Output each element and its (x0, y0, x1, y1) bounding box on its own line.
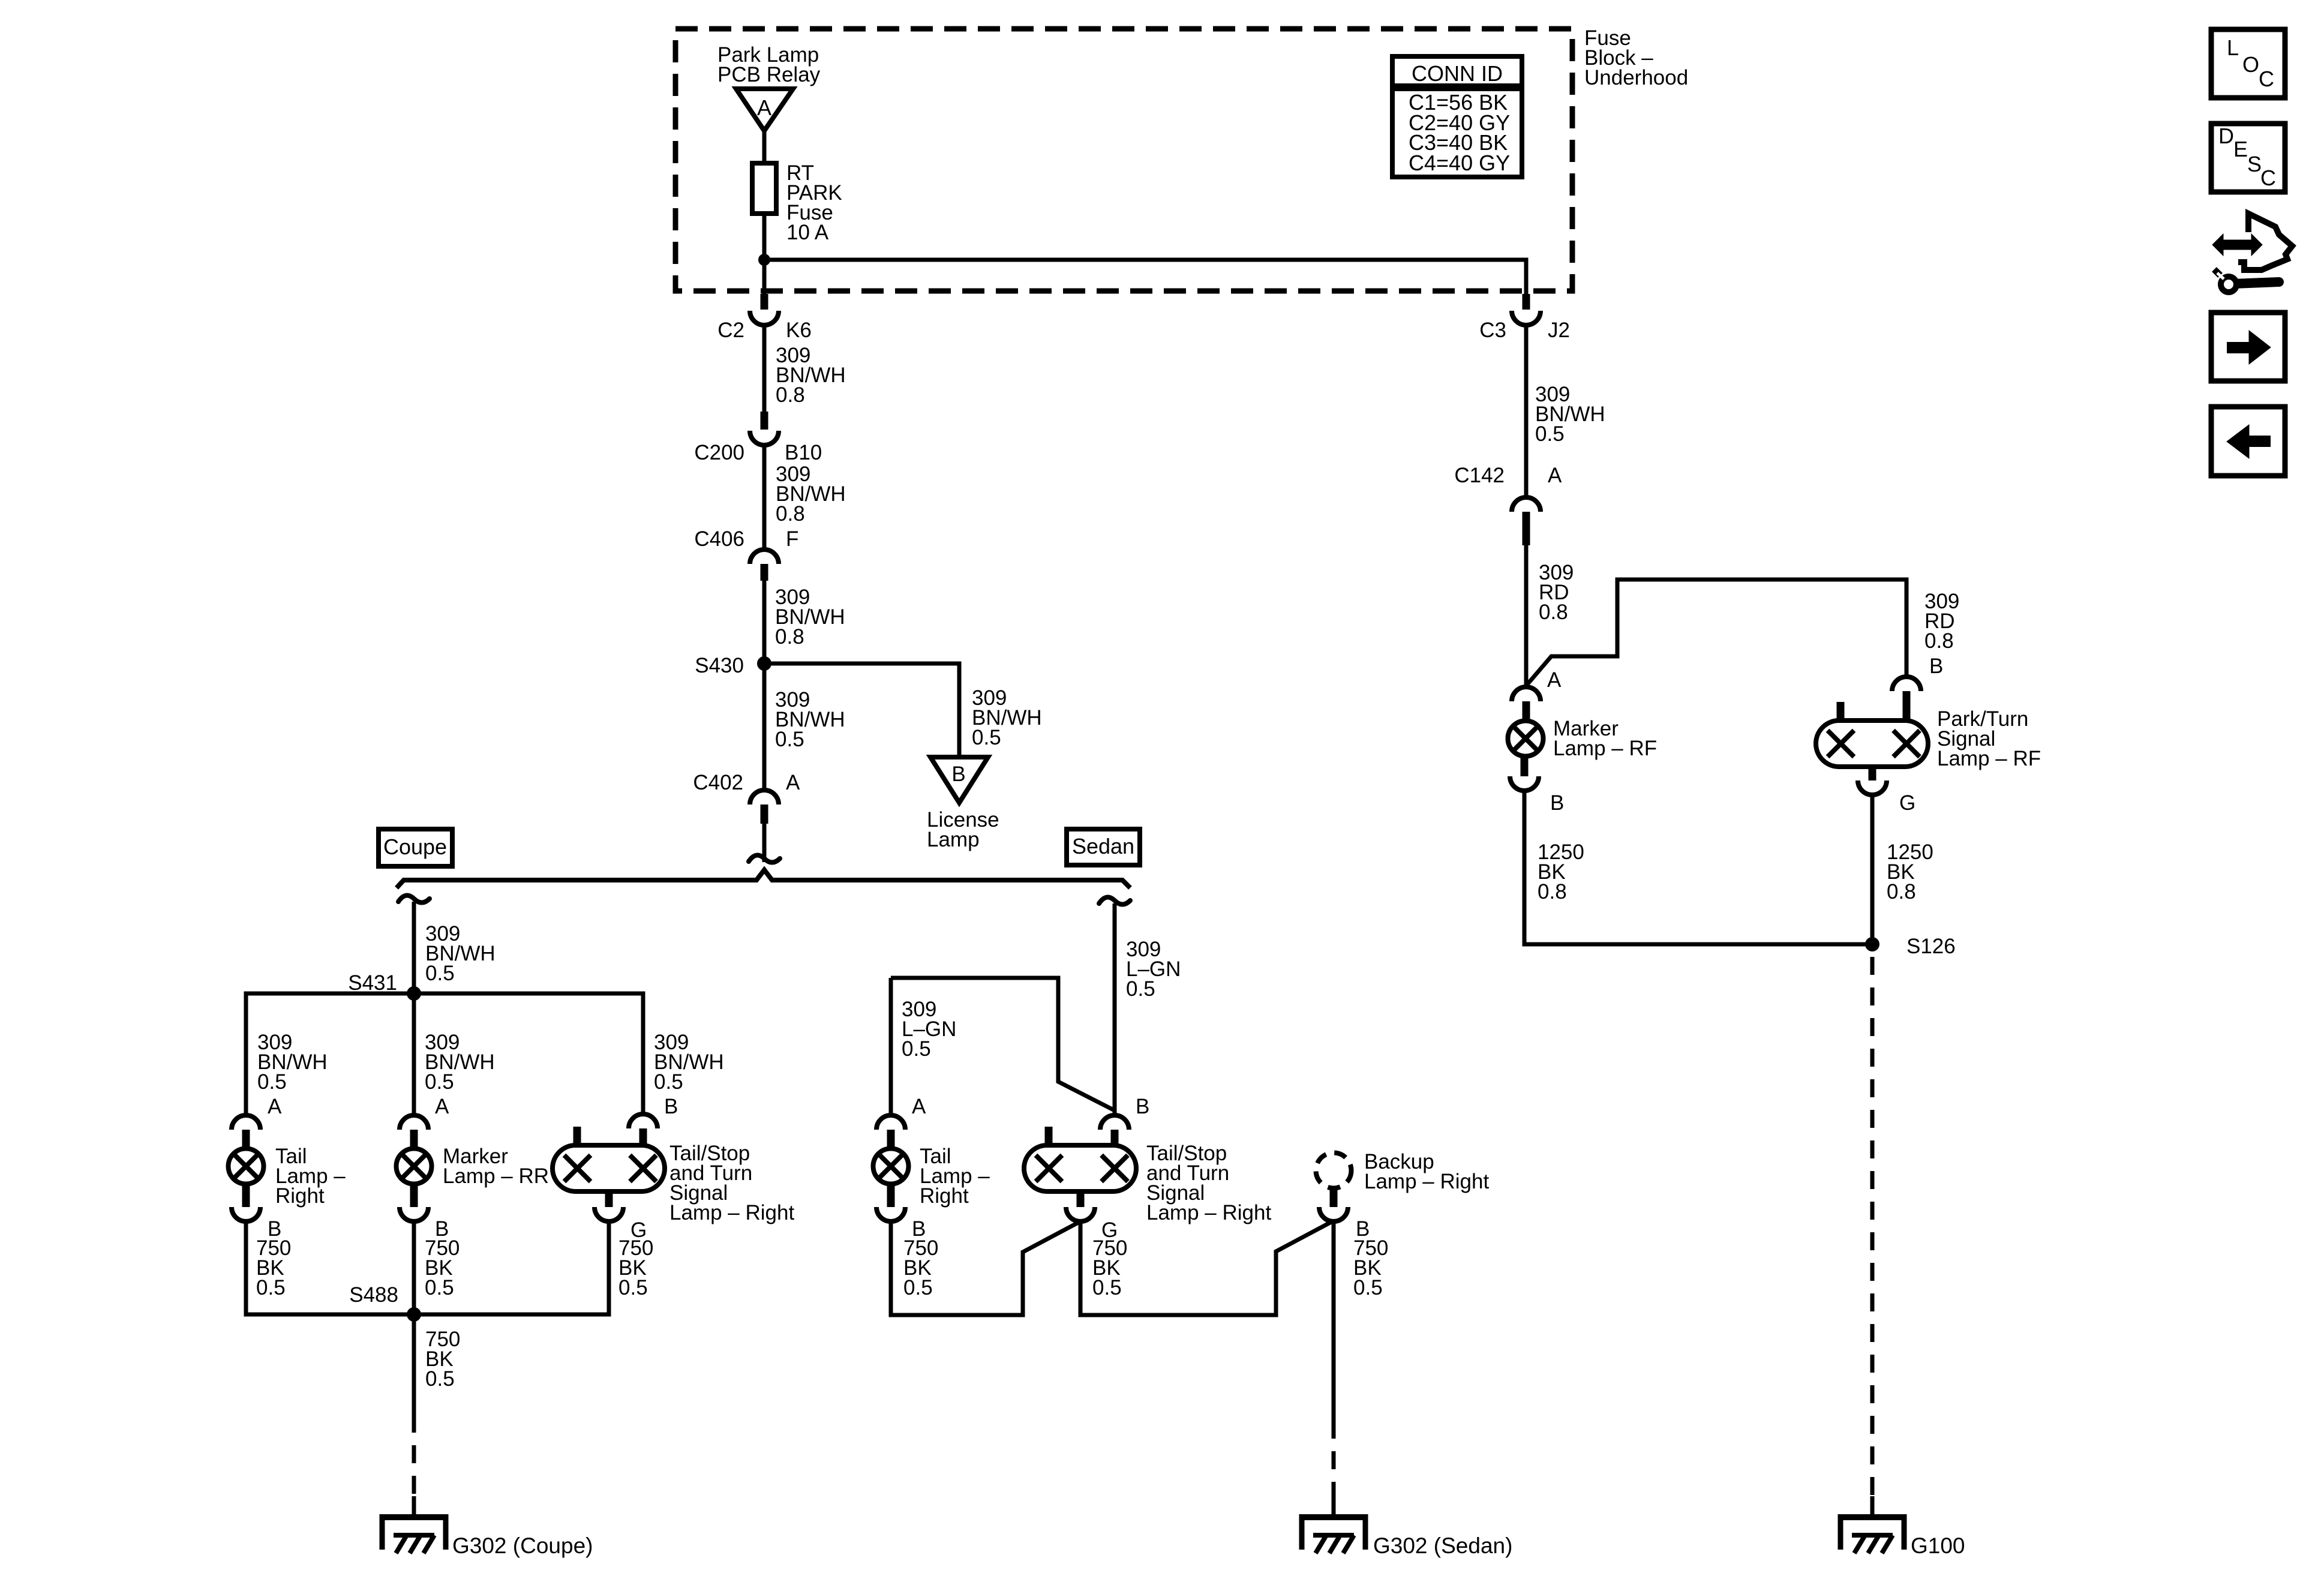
pin stub: coupe marker lamp A (410, 1130, 418, 1149)
ground G100 (1838, 1514, 1906, 1553)
wire: marker RF B to S126, circuit 1250 BK 0.8 (1524, 791, 1872, 944)
wire: jog branch to park/turn lamp RF, circuit 309 RD 0.8 (1526, 580, 1906, 686)
lamp: Marker Lamp - RR (397, 1149, 432, 1184)
label: C2 (717, 319, 744, 342)
label: S431 (348, 971, 397, 995)
relay output pin A triangle (Park Lamp PCB Relay) (736, 89, 793, 131)
label: 1250 BK 0.8 (park/turn RF) (1887, 840, 1933, 903)
pin stub: sedan tail/stop lamp unused (1045, 1127, 1053, 1145)
label: pin G (park/turn lamp RF) (1899, 791, 1915, 815)
lamp: Tail/Stop and Turn Signal Lamp - Right (coupe) (553, 1145, 665, 1191)
wire: S430 branch to license lamp (764, 664, 959, 757)
wire: C406 to S430, circuit 309 BN/WH 0.8 (762, 581, 767, 664)
label: pin G (coupe tail/stop lamp) (630, 1218, 647, 1242)
label: pin B (backup lamp) (1356, 1217, 1370, 1241)
svg-text:S126: S126 (1906, 935, 1956, 958)
svg-text:0.5: 0.5 (775, 728, 804, 751)
wire: sedan tail lamp branch jog (891, 978, 1115, 1110)
splice node S488 (407, 1307, 421, 1322)
svg-text:B: B (1929, 655, 1943, 678)
wire: sedan tail lamp B ground run, circuit 750 BK 0.5 (891, 1221, 1079, 1315)
pin stub: coupe marker lamp B (410, 1183, 418, 1207)
svg-text:A: A (912, 1095, 926, 1118)
label: S488 (349, 1283, 398, 1307)
wire: coupe marker lamp B to S488, circuit 750 BK 0.5 (412, 1221, 416, 1314)
svg-text:0.8: 0.8 (776, 383, 805, 407)
label: 750 BK 0.5 (backup lamp) (1353, 1236, 1388, 1299)
label: pin B (sedan tail/stop lamp) (1136, 1095, 1149, 1118)
label: pin B (coupe marker lamp) (435, 1217, 449, 1241)
label: 750 BK 0.5 (S488-ground) (425, 1328, 460, 1391)
label: pin A (sedan tail lamp) (912, 1095, 926, 1118)
label: Fuse Block - Underhood (1584, 26, 1688, 89)
svg-text:C3: C3 (1479, 319, 1506, 342)
svg-text:C4=40 GY: C4=40 GY (1409, 151, 1510, 175)
splice node S126 (1865, 937, 1879, 951)
splice node S431 (407, 986, 421, 1001)
wire: bus down through C2 (762, 260, 767, 295)
wire: sedan tail/stop G ground run, circuit 750 BK 0.5 (1080, 1221, 1331, 1315)
svg-text:Lamp – Right: Lamp – Right (1146, 1201, 1271, 1224)
svg-text:0.5: 0.5 (425, 1070, 454, 1094)
svg-text:S431: S431 (348, 971, 397, 995)
lamp: Tail/Stop and Turn Signal Lamp - Right (sedan) (1024, 1145, 1136, 1191)
ground G302 (Coupe) (380, 1514, 448, 1553)
connector C200 cup (750, 431, 779, 445)
pin stub: park/turn lamp RF G (1869, 767, 1876, 781)
connector C402 pin A (male stub) (761, 804, 768, 824)
label: 309 BN/WH 0.5 (C3-C142) (1535, 383, 1605, 446)
svg-text:K6: K6 (786, 319, 812, 342)
label box: Sedan (1067, 829, 1140, 865)
wire: ground stub G100 (1870, 1496, 1875, 1517)
connector cap at coupe tail lamp pin A (232, 1115, 260, 1130)
wire: C200 to C406, circuit 309 BN/WH 0.8 (762, 445, 767, 550)
label: Marker Lamp - RF (1553, 717, 1657, 760)
pin stub: coupe tail lamp B (242, 1183, 250, 1207)
svg-text:G302 (Coupe): G302 (Coupe) (452, 1533, 593, 1558)
wire: C3 to C142, circuit 309 BN/WH 0.5 (1524, 325, 1529, 497)
svg-text:0.5: 0.5 (903, 1276, 933, 1299)
svg-text:J2: J2 (1548, 319, 1570, 342)
svg-text:A: A (268, 1095, 282, 1118)
label: 309 RD 0.8 (marker RF) (1539, 561, 1574, 624)
icon: repair/diagnostic (double arrow, harness outline, wrench) (2212, 214, 2292, 292)
wire: coupe feed to S431, circuit 309 BN/WH 0.5 (412, 902, 416, 993)
label: CONN ID rows (1409, 90, 1510, 175)
label: K6 (786, 319, 812, 342)
label: 309 BN/WH 0.5 (coupe tail lamp) (257, 1031, 328, 1094)
svg-text:B: B (1136, 1095, 1149, 1118)
pin stub: sedan tail/stop lamp B (1111, 1130, 1119, 1145)
wire: down to sedan tail lamp pin A (889, 978, 893, 1115)
label: C402 (693, 771, 743, 794)
connector C200 pin B10 (male stub) (761, 412, 768, 430)
svg-text:C200: C200 (694, 441, 744, 464)
svg-text:Lamp – RR: Lamp – RR (443, 1164, 549, 1188)
connector C142 pin A (male stub) (1523, 512, 1530, 545)
splice node S430 (757, 656, 771, 671)
svg-text:0.8: 0.8 (1538, 880, 1567, 903)
connector C406 cap (750, 550, 779, 564)
lamp: Marker Lamp - RF (1508, 721, 1544, 757)
svg-text:S: S (2247, 152, 2262, 176)
svg-text:0.8: 0.8 (1924, 629, 1954, 653)
wire: S430 to C402, circuit 309 BN/WH 0.5 (762, 664, 767, 790)
svg-text:F: F (786, 527, 798, 551)
label: C3 (1479, 319, 1506, 342)
svg-text:A: A (1547, 668, 1562, 692)
ground G302 (Sedan) (1299, 1514, 1368, 1553)
svg-text:0.8: 0.8 (1887, 880, 1916, 903)
svg-text:0.5: 0.5 (1535, 422, 1565, 446)
wire (off-page dashed): S126 to G100 (1870, 957, 1875, 1501)
label: Park/Turn Signal Lamp - RF (1937, 707, 2041, 770)
svg-text:0.5: 0.5 (257, 1070, 287, 1094)
label: 309 RD 0.8 (park/turn RF) (1924, 590, 1959, 653)
svg-text:D: D (2218, 124, 2234, 148)
connector cup at coupe tail/stop lamp pin G (594, 1207, 623, 1221)
svg-text:0.5: 0.5 (1353, 1276, 1383, 1299)
label: License Lamp (927, 808, 999, 851)
body style split brace (397, 870, 1130, 888)
svg-text:C2: C2 (717, 319, 744, 342)
label: 750 BK 0.5 (sedan tail lamp) (903, 1236, 938, 1299)
label box: Coupe (379, 829, 452, 866)
pin stub: coupe tail/stop lamp G (605, 1191, 613, 1207)
svg-text:B10: B10 (785, 441, 822, 464)
label: 309 BN/WH 0.5 (coupe feed) (425, 922, 496, 985)
connector C142 cap (1512, 497, 1541, 512)
svg-text:0.8: 0.8 (776, 502, 805, 526)
svg-text:0.5: 0.5 (425, 962, 455, 985)
svg-text:0.5: 0.5 (902, 1037, 931, 1061)
pin stub: sedan tail/stop lamp G (1077, 1191, 1085, 1207)
pin stub: coupe tail/stop lamp B (639, 1128, 647, 1145)
connector cap at coupe tail/stop lamp pin B (629, 1114, 657, 1128)
svg-text:0.5: 0.5 (425, 1276, 454, 1299)
connector cap at marker lamp RF pin A (1512, 687, 1541, 701)
svg-text:Underhood: Underhood (1584, 66, 1688, 89)
label: pin B (coupe tail/stop lamp) (664, 1095, 678, 1118)
svg-text:A: A (1548, 464, 1562, 487)
wire: sedan feed, circuit 309 L-GN 0.5 (1113, 903, 1117, 1115)
label: 309 BN/WH 0.5 (license branch) (972, 686, 1042, 749)
label: G302 (Sedan) (1373, 1533, 1512, 1558)
svg-text:B: B (1550, 791, 1564, 815)
label: G302 (Coupe) (452, 1533, 593, 1558)
label: 309 BN/WH 0.8 (C406-S430) (775, 586, 845, 649)
CONN ID table (1392, 56, 1522, 177)
label: Tail/Stop and Turn Signal Lamp - Right (coupe) (669, 1142, 794, 1224)
svg-text:G100: G100 (1911, 1533, 1965, 1558)
svg-text:Lamp – RF: Lamp – RF (1553, 737, 1657, 760)
svg-text:A: A (435, 1095, 449, 1118)
wire: ground stub G302 coupe (412, 1496, 416, 1517)
label: Park Lamp PCB Relay (717, 43, 821, 86)
label: 309 L-GN 0.5 (sedan feed) (1126, 938, 1181, 1001)
connector C3 pin J2 (male stub) (1523, 294, 1530, 310)
connector cap at sedan tail/stop lamp pin B (1100, 1115, 1129, 1130)
connector cap at park/turn lamp RF pin B (1892, 677, 1921, 691)
label: S430 (695, 654, 744, 677)
label: pin B (coupe tail lamp) (268, 1217, 281, 1241)
wire: relay pin A to RT PARK fuse (762, 131, 767, 163)
label: 750 BK 0.5 (sedan tail/stop lamp) (1092, 1236, 1127, 1299)
label: Backup Lamp - Right (1364, 1150, 1489, 1193)
pin stub: sedan tail lamp B (887, 1183, 895, 1207)
wire break mark at sedan branch top (1099, 897, 1130, 905)
label: 309 BN/WH 0.8 (C200-C406) (776, 463, 846, 526)
wire: park/turn RF G to S126, circuit 1250 BK 0.8 (1870, 795, 1875, 944)
wire: C2 to C200, circuit 309 BN/WH 0.8 (762, 325, 767, 412)
junction node inside fuse block (758, 254, 770, 266)
wire break mark above split brace (749, 855, 780, 863)
label: Marker Lamp - RR (443, 1145, 549, 1188)
label: pin B (sedan tail lamp) (912, 1217, 926, 1241)
svg-text:0.8: 0.8 (775, 625, 804, 649)
pin stub: coupe tail lamp A (242, 1130, 250, 1149)
svg-text:Lamp: Lamp (927, 828, 980, 851)
svg-text:G302 (Sedan): G302 (Sedan) (1373, 1533, 1512, 1558)
fuse RT PARK 10 A (752, 163, 776, 214)
label: pin A (coupe tail lamp) (268, 1095, 282, 1118)
lamp: Backup Lamp - Right (optional, dashed) (1316, 1153, 1352, 1188)
label: C406 (694, 527, 744, 551)
lamp: Park/Turn Signal Lamp - RF (1816, 721, 1928, 767)
svg-text:C: C (2259, 67, 2274, 91)
svg-text:Lamp – Right: Lamp – Right (1364, 1170, 1489, 1193)
svg-text:C406: C406 (694, 527, 744, 551)
label: 309 BN/WH 0.8 (C2-C200) (776, 344, 846, 407)
svg-text:10 A: 10 A (786, 221, 829, 244)
wire: S431 to coupe tail/stop lamp pin B (414, 993, 643, 1114)
label: B10 (785, 441, 822, 464)
label: A (C402) (786, 771, 800, 794)
lamp: Tail Lamp - Right (coupe) (229, 1149, 264, 1184)
connector cap at coupe marker lamp pin A (400, 1115, 428, 1130)
svg-text:G: G (1899, 791, 1915, 815)
svg-text:Right: Right (275, 1184, 325, 1208)
wire: fuse to internal junction (762, 214, 767, 260)
svg-text:CONN ID: CONN ID (1412, 61, 1503, 86)
svg-text:0.5: 0.5 (1126, 977, 1155, 1001)
svg-text:0.5: 0.5 (425, 1367, 455, 1391)
label: pin B (marker lamp RF) (1550, 791, 1564, 815)
label: Tail/Stop and Turn Signal Lamp - Right (sedan) (1146, 1142, 1271, 1224)
lamp: Tail Lamp - Right (sedan) (873, 1149, 909, 1184)
label: 309 BN/WH 0.5 (coupe tail/stop lamp) (654, 1031, 724, 1094)
pin stub: marker lamp RF B (1521, 755, 1529, 776)
connector cup at backup lamp pin B (1319, 1207, 1348, 1221)
svg-text:O: O (2242, 52, 2259, 77)
connector C406 pin F (male stub) (761, 564, 768, 581)
label: pin A (coupe marker lamp) (435, 1095, 449, 1118)
label: C200 (694, 441, 744, 464)
wire (off-page dashed): to G302 coupe (412, 1415, 416, 1501)
connector cup at sedan tail/stop lamp pin G (1066, 1207, 1095, 1221)
wire: S431 to coupe tail lamp pin A (246, 993, 414, 1115)
license lamp pin B triangle (930, 757, 988, 803)
connector cap at sedan tail lamp pin A (876, 1115, 905, 1130)
svg-text:Coupe: Coupe (383, 834, 447, 859)
svg-text:E: E (2233, 137, 2248, 161)
svg-text:0.5: 0.5 (618, 1276, 648, 1299)
connector C2 pin K6 (male stub) (761, 294, 768, 310)
label: 1250 BK 0.8 (marker RF) (1538, 840, 1584, 903)
svg-text:0.5: 0.5 (654, 1070, 683, 1094)
wire break mark at coupe branch top (398, 896, 430, 903)
svg-text:L: L (2227, 35, 2239, 60)
label: G100 (1911, 1533, 1965, 1558)
pin stub: sedan tail lamp A (887, 1130, 895, 1149)
wire: coupe tail/stop G to S488, circuit 750 BK 0.5 (414, 1221, 609, 1314)
pin stub: coupe tail/stop lamp unused (574, 1127, 581, 1145)
connector C3 cup (1512, 311, 1541, 325)
wire (off-page dashed): to G302 sedan (1332, 1421, 1336, 1501)
svg-text:PCB Relay: PCB Relay (717, 63, 821, 86)
wire: C142 to marker lamp RF pin A, circuit 309 RD 0.8 (1524, 545, 1529, 687)
label: A (C142) (1548, 464, 1562, 487)
label: pin G (sedan tail/stop lamp) (1101, 1218, 1118, 1242)
pin stub: marker lamp RF A (1523, 701, 1530, 722)
label: pin A (marker lamp RF) (1547, 668, 1562, 692)
svg-text:0.5: 0.5 (972, 726, 1001, 749)
connector cup at sedan tail lamp pin B (876, 1207, 905, 1221)
connector cup at coupe marker lamp pin B (400, 1207, 428, 1221)
connector C402 cap (750, 790, 779, 804)
label: Tail Lamp - Right (sedan) (920, 1145, 990, 1208)
svg-text:0.8: 0.8 (1539, 601, 1568, 624)
fuse block - underhood dashed outline (675, 29, 1572, 291)
wire: coupe tail lamp B to S488, circuit 750 BK 0.5 (246, 1221, 414, 1314)
svg-text:A: A (786, 771, 800, 794)
svg-text:S430: S430 (695, 654, 744, 677)
label: C142 (1454, 464, 1505, 487)
wire: backup lamp B to ground, circuit 750 BK 0.5 (1332, 1221, 1336, 1421)
svg-text:0.5: 0.5 (256, 1276, 286, 1299)
label: RT PARK Fuse 10 A (786, 161, 842, 244)
icon button: DESC (2211, 124, 2285, 192)
pin stub: park/turn lamp RF unused (1837, 702, 1845, 721)
label: 750 BK 0.5 (coupe tail lamp) (256, 1236, 291, 1299)
connector cup at marker lamp RF pin B (1510, 776, 1539, 791)
pin stub: backup lamp B (1330, 1188, 1338, 1207)
svg-text:B: B (951, 763, 965, 786)
label: 750 BK 0.5 (coupe tail/stop lamp) (618, 1236, 653, 1299)
label: 309 BN/WH 0.5 (S430-C402) (775, 688, 845, 751)
icon button: LOC (2211, 29, 2285, 98)
svg-text:C: C (2260, 166, 2276, 190)
label: S126 (1906, 935, 1956, 958)
svg-text:Right: Right (920, 1184, 969, 1208)
label: F (786, 527, 798, 551)
connector C2 cup (750, 311, 779, 325)
connector cup at park/turn lamp RF pin G (1858, 781, 1887, 795)
wire: S488 to ground, circuit 750 BK 0.5 (412, 1314, 416, 1415)
svg-text:Sedan: Sedan (1072, 834, 1134, 858)
label: 750 BK 0.5 (coupe marker lamp) (425, 1236, 460, 1299)
svg-text:C402: C402 (693, 771, 743, 794)
pin stub: park/turn lamp RF B (1903, 691, 1911, 721)
svg-text:0.5: 0.5 (1092, 1276, 1122, 1299)
wire: S431 to coupe marker lamp pin A (412, 993, 416, 1115)
svg-text:C142: C142 (1454, 464, 1505, 487)
svg-text:Lamp – RF: Lamp – RF (1937, 747, 2041, 770)
svg-text:A: A (757, 95, 771, 120)
svg-text:Lamp – Right: Lamp – Right (669, 1201, 794, 1224)
wire: C402 down to body split (762, 824, 767, 862)
connector cup at coupe tail lamp pin B (232, 1207, 260, 1221)
svg-text:S488: S488 (349, 1283, 398, 1307)
label: J2 (1548, 319, 1570, 342)
svg-text:B: B (664, 1095, 678, 1118)
wire: fuse block internal bus to right side (762, 260, 1526, 295)
label: 309 BN/WH 0.5 (coupe marker lamp) (425, 1031, 495, 1094)
icon button: next page (right arrow) (2211, 313, 2285, 381)
wire: ground stub G302 sedan (1332, 1496, 1336, 1517)
label: pin B (park/turn lamp RF) (1929, 655, 1943, 678)
label: 309 L-GN 0.5 (sedan tail lamp) (902, 998, 956, 1061)
label: Tail Lamp - Right (coupe) (275, 1145, 346, 1208)
icon button: previous page (left arrow) (2211, 407, 2285, 476)
